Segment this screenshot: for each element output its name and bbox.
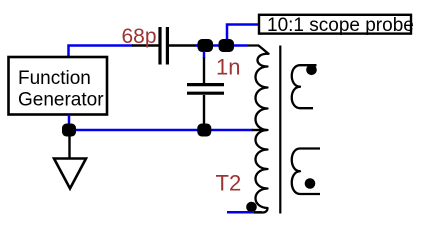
polarity dot lower secondary xyxy=(305,178,316,189)
transformer core xyxy=(279,46,281,214)
svg-text:68p: 68p xyxy=(122,25,157,48)
wire: middle net (blue) xyxy=(69,129,253,132)
svg-text:1n: 1n xyxy=(216,55,240,80)
label 68p xyxy=(122,25,157,48)
label T2 xyxy=(216,171,242,196)
wire: ground lead (black) xyxy=(68,136,70,158)
junction node C (function generator / ground) xyxy=(62,124,76,137)
svg-text:T2: T2 xyxy=(216,171,242,196)
wire: primary bottom lead (blue) xyxy=(227,211,255,214)
wire: primary bottom lead (black) xyxy=(254,211,262,213)
polarity dot upper secondary xyxy=(306,65,317,76)
capacitor 68p plates xyxy=(160,27,167,65)
junction node D (1n bottom tap) xyxy=(197,124,211,137)
junction node A (top, 1n tap) xyxy=(198,39,214,52)
box: Function Generator xyxy=(9,57,108,115)
wire: scope probe net (blue) xyxy=(227,25,258,41)
polarity dot primary xyxy=(246,202,257,213)
wire: 68p right lead to node (black) xyxy=(169,44,198,46)
svg-text:Generator: Generator xyxy=(18,90,104,111)
wire: 68p left lead (black) xyxy=(132,44,159,46)
wire: primary tap stub (black) xyxy=(252,129,267,131)
junction node B (top, scope tap) xyxy=(219,39,235,52)
svg-text:Function: Function xyxy=(18,68,91,89)
wire: function generator bottom lead (blue) xyxy=(68,115,71,126)
wire: function generator top lead (blue) xyxy=(69,46,134,58)
transformer T2 lower secondary winding xyxy=(292,149,320,195)
transformer T2 primary winding xyxy=(248,46,269,213)
capacitor C 1n: bottom lead xyxy=(203,95,205,125)
label 1n xyxy=(216,55,240,80)
wire: top net through junctions (blue) xyxy=(196,44,248,47)
transformer T2 upper secondary winding xyxy=(292,65,317,108)
capacitor C 1n: top lead xyxy=(203,51,206,83)
box: 10:1 scope probe label xyxy=(259,15,414,36)
ground xyxy=(54,159,86,189)
capacitor C 1n: plates xyxy=(187,85,224,94)
svg-text:10:1 scope probe: 10:1 scope probe xyxy=(267,15,414,36)
